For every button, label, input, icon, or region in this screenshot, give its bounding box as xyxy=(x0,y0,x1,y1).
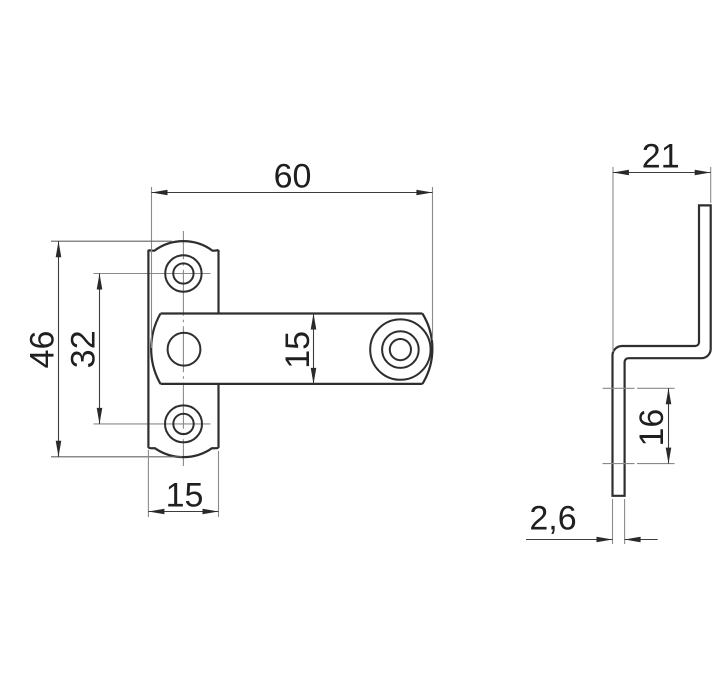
dim 32 line xyxy=(99,274,101,424)
svg-text:60: 60 xyxy=(274,158,312,196)
dim 16 arrow top xyxy=(666,388,672,404)
dim 16 tick lines xyxy=(603,387,675,389)
svg-text:16: 16 xyxy=(633,409,671,447)
dim 60 extension lines xyxy=(151,187,153,348)
dim 15 arm line xyxy=(313,314,315,384)
centerline vertical through holes xyxy=(182,231,184,466)
dim 21 arrow left xyxy=(613,170,629,176)
hole top (counterbored) xyxy=(165,255,201,291)
dim 46 arrow bottom xyxy=(56,441,62,457)
dim 2,6 arrow left (points right) xyxy=(597,537,613,543)
svg-text:46: 46 xyxy=(24,331,62,369)
dim 15 bottom arrow left xyxy=(148,509,164,515)
svg-text:15: 15 xyxy=(279,331,317,369)
dim 21 extension lines xyxy=(612,167,614,352)
hole middle xyxy=(168,333,201,366)
dim 21 arrow right xyxy=(695,170,711,176)
dim 21 line xyxy=(613,172,711,174)
dim 2,6 line left xyxy=(526,539,613,541)
hole bottom (counterbored) xyxy=(165,405,202,442)
arm outline xyxy=(151,314,432,384)
dim 60 line xyxy=(152,192,433,194)
dim 2,6 arrow right (points left) xyxy=(625,537,641,543)
dim 15 bottom arrow right xyxy=(203,509,219,515)
Z profile outline xyxy=(613,205,711,495)
dim 60 arrow left xyxy=(152,190,168,196)
dim 15 bottom extension lines xyxy=(147,450,149,517)
svg-text:32: 32 xyxy=(64,330,102,368)
dim 46 line xyxy=(58,241,60,457)
dim 2,6 extension lines xyxy=(612,499,614,544)
dim 32 arrow top xyxy=(97,274,103,290)
dim 15 arm arrow top xyxy=(311,314,317,330)
svg-text:15: 15 xyxy=(166,476,204,514)
centerline bottom hole horizontal xyxy=(94,423,211,425)
svg-text:21: 21 xyxy=(642,138,680,176)
plate outline xyxy=(148,241,218,457)
dim 16 line xyxy=(668,388,670,463)
dim 32 arrow bottom xyxy=(97,408,103,424)
dim 46 extension lines xyxy=(51,240,172,242)
dim 15 bottom line xyxy=(148,511,218,513)
dim 46 arrow top xyxy=(56,241,62,257)
svg-text:2,6: 2,6 xyxy=(529,500,576,538)
dim 16 arrow bottom xyxy=(666,448,672,464)
dim 60 arrow right xyxy=(416,190,432,196)
dim 2,6 line right xyxy=(625,539,658,541)
hole arm end (large, 3 circles) xyxy=(370,319,430,379)
dim 15 arm arrow bottom xyxy=(311,368,317,384)
centerline top hole horizontal xyxy=(94,273,211,275)
